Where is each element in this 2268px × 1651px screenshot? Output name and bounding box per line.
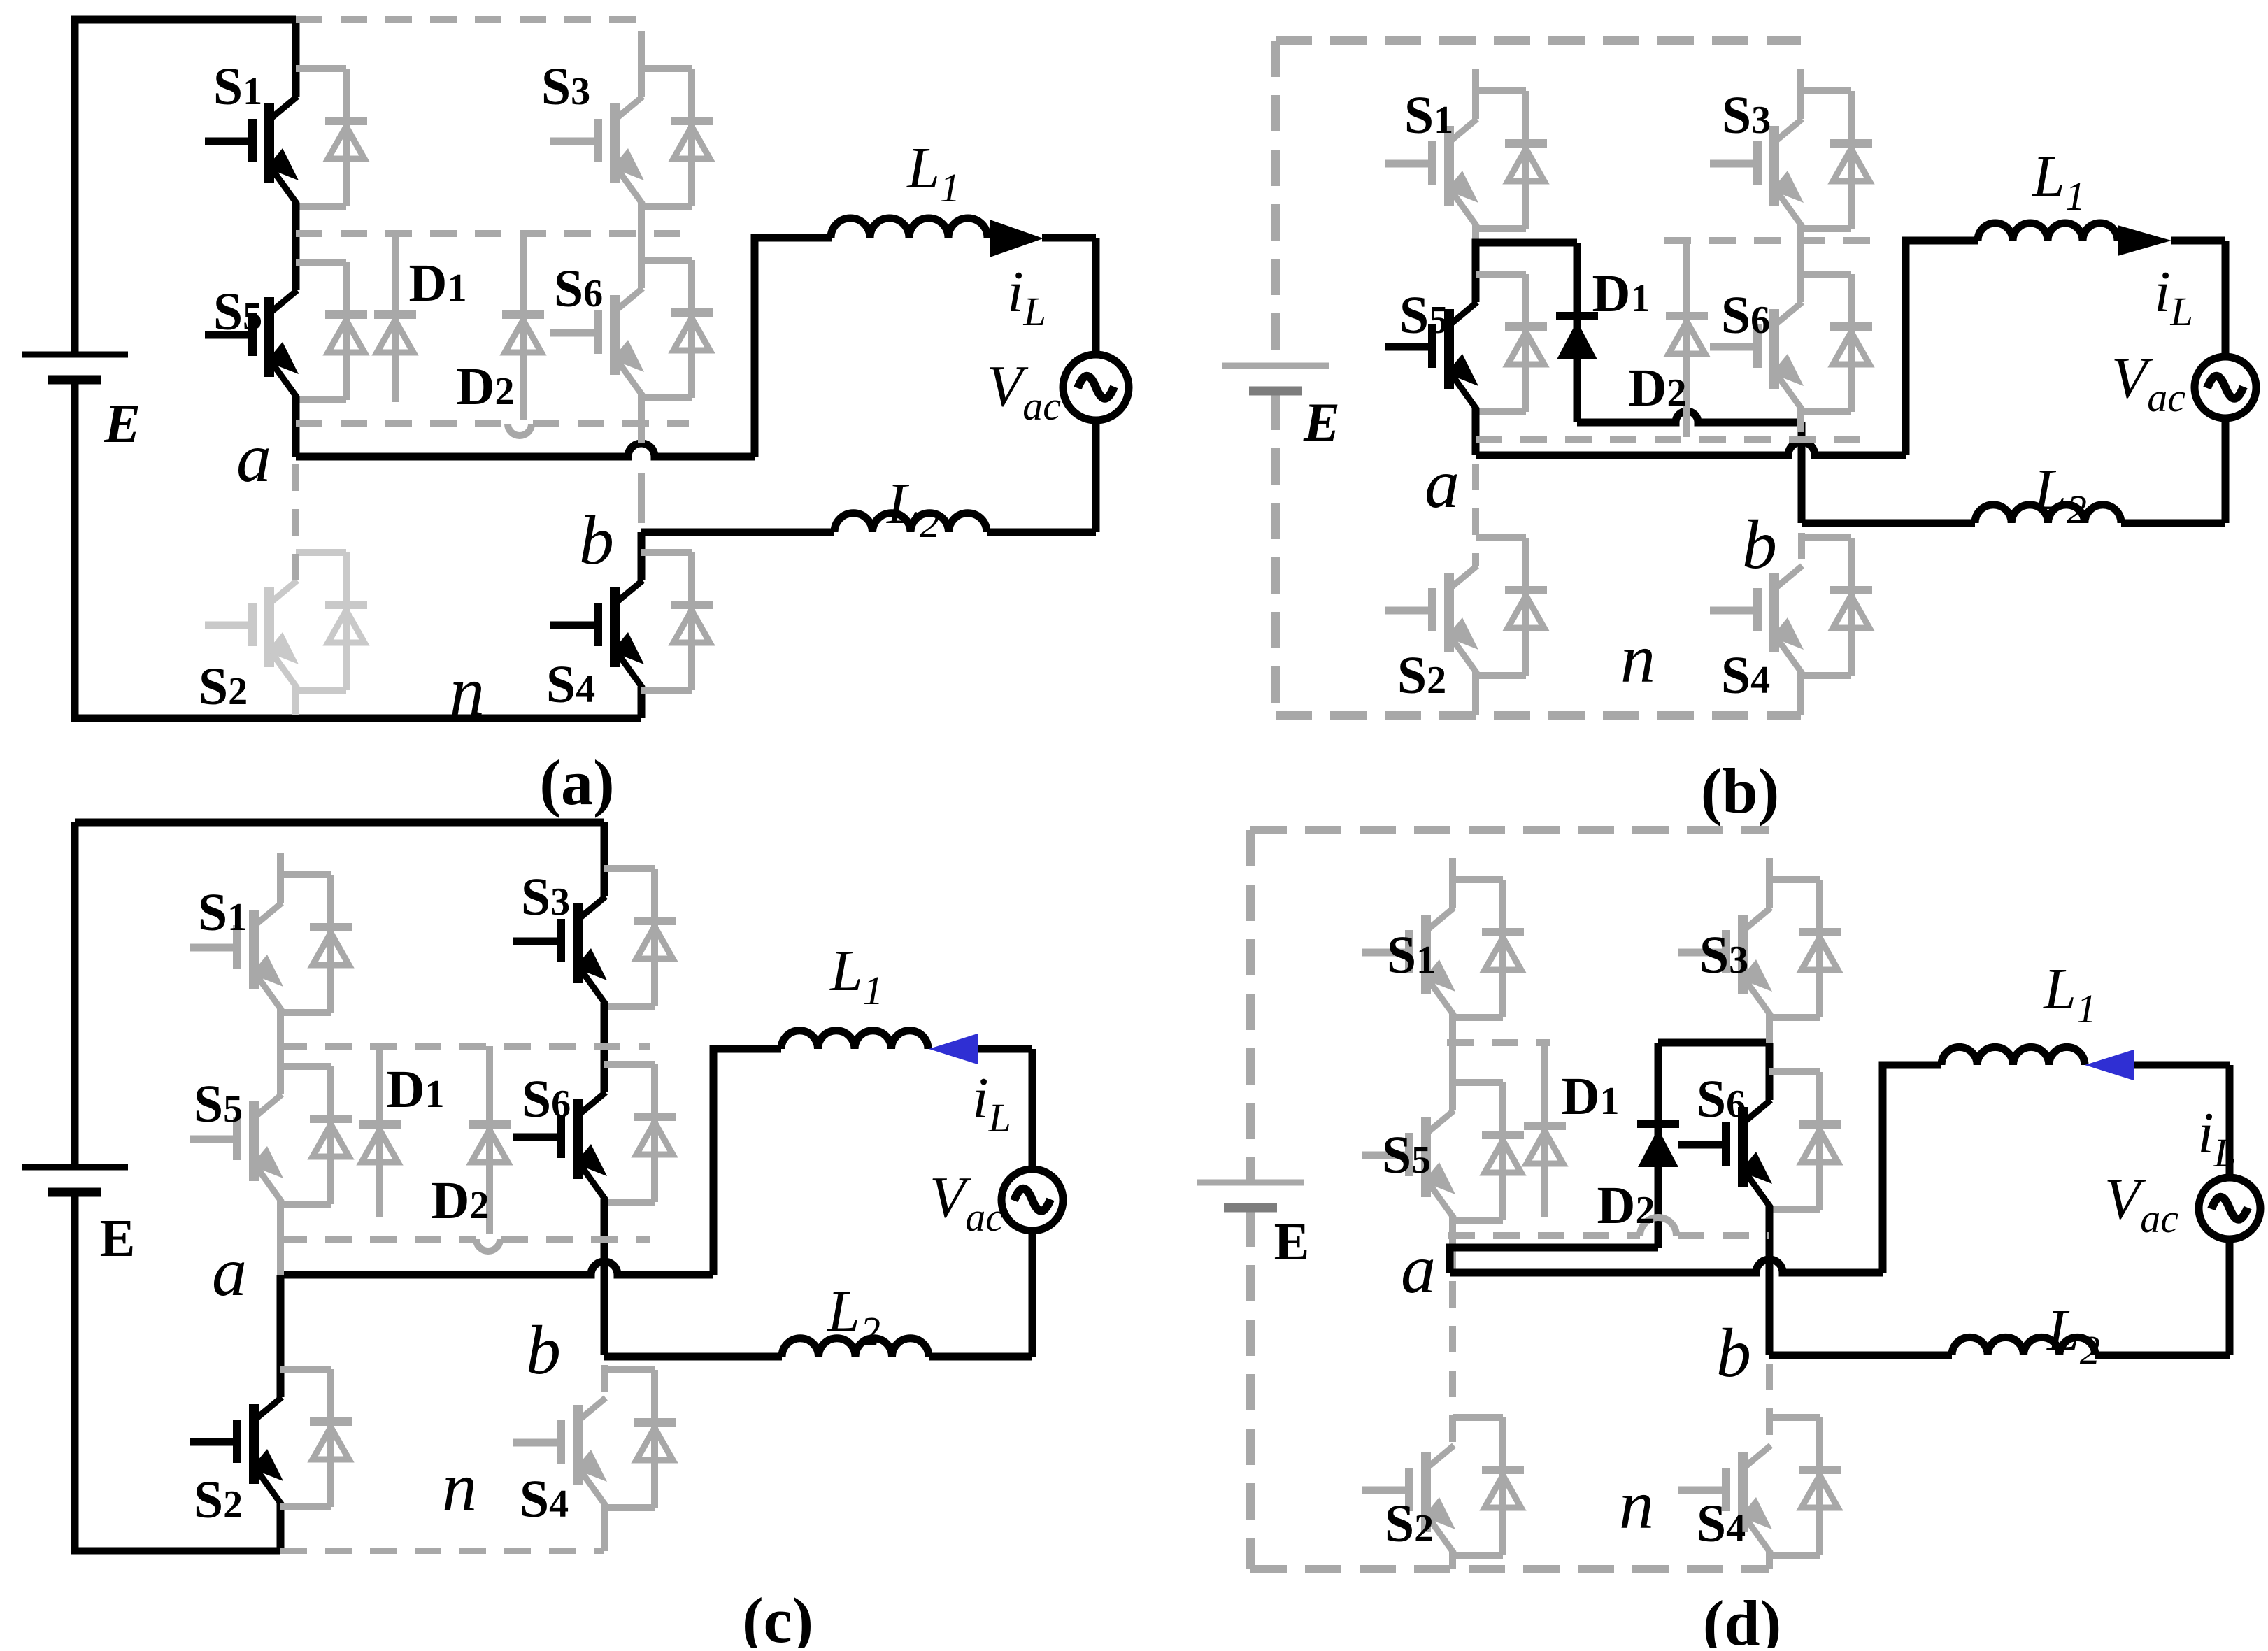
svg-text:E: E <box>104 393 141 454</box>
svg-text:n: n <box>450 652 485 730</box>
svg-text:b: b <box>579 501 614 579</box>
svg-text:a: a <box>236 419 271 496</box>
svg-text:b: b <box>1716 1314 1751 1392</box>
svg-text:a: a <box>1401 1230 1436 1308</box>
svg-text:E: E <box>1274 1213 1310 1271</box>
svg-text:(b): (b) <box>1701 755 1779 827</box>
svg-text:(c): (c) <box>742 1585 813 1648</box>
svg-text:n: n <box>442 1448 477 1526</box>
svg-text:E: E <box>1303 392 1340 452</box>
svg-text:E: E <box>100 1209 136 1268</box>
svg-text:a: a <box>1425 445 1460 522</box>
svg-text:a: a <box>212 1233 247 1310</box>
svg-text:n: n <box>1619 1466 1654 1543</box>
svg-text:n: n <box>1620 620 1655 697</box>
svg-text:b: b <box>1742 506 1777 583</box>
svg-text:(d): (d) <box>1703 1587 1781 1648</box>
svg-text:b: b <box>526 1311 561 1389</box>
svg-text:(a): (a) <box>539 747 614 818</box>
